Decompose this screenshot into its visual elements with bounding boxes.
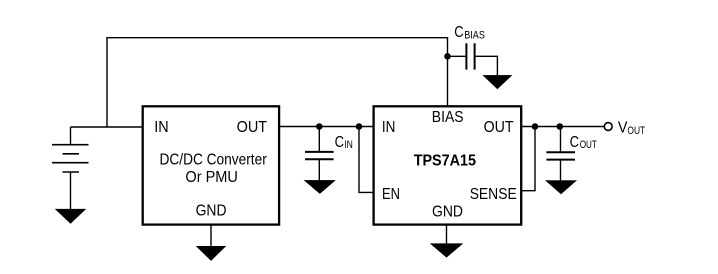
- capacitor COUT: [546, 152, 575, 159]
- wire EN drop from input rail into EN pin: [359, 127, 374, 193]
- junction dot SENSE / OUT node: [532, 123, 539, 130]
- svg-text:C: C: [454, 24, 463, 41]
- svg-text:IN: IN: [382, 119, 396, 136]
- terminal VOUT open circle: [604, 123, 612, 131]
- capacitor CIN: [305, 152, 334, 159]
- wire SENSE feedback to OUT node: [521, 127, 535, 191]
- wire OUT of TPS7A15 to VOUT terminal: [521, 126, 604, 128]
- wire TPS7A15 GND stem: [446, 225, 448, 245]
- box DC/DC Converter U1: [143, 106, 279, 224]
- svg-text:SENSE: SENSE: [470, 186, 517, 203]
- svg-text:IN: IN: [344, 139, 353, 151]
- wire converter GND stem: [210, 225, 212, 247]
- ground converter GND: [197, 246, 226, 260]
- svg-text:OUT: OUT: [484, 119, 514, 136]
- ground COUT: [546, 181, 576, 194]
- wire battery negative stem to ground: [70, 172, 72, 210]
- svg-text:DC/DC Converter: DC/DC Converter: [160, 151, 267, 168]
- svg-text:C: C: [335, 134, 344, 151]
- wire COUT top stem: [560, 127, 562, 152]
- wire battery to IN of DC/DC converter: [71, 126, 143, 128]
- ground battery: [56, 209, 86, 223]
- wire CBIAS right lead to ground drop: [476, 56, 498, 76]
- wire battery positive stem: [70, 127, 72, 144]
- wire top rail from battery net up and across to BIAS: [107, 38, 448, 127]
- battery B1 plates: [52, 145, 89, 172]
- svg-text:OUT: OUT: [237, 119, 268, 136]
- wire CIN top stem: [318, 127, 320, 152]
- wire OUT of converter to IN of TPS7A15: [279, 126, 374, 128]
- junction dot COUT / OUT node: [557, 123, 564, 130]
- wire CBIAS left lead: [448, 55, 466, 57]
- svg-text:GND: GND: [196, 202, 227, 219]
- svg-text:BIAS: BIAS: [432, 109, 464, 126]
- box TPS7A15 U2: [374, 106, 522, 224]
- svg-text:IN: IN: [154, 119, 168, 136]
- svg-text:OUT: OUT: [627, 125, 645, 137]
- svg-text:Or PMU: Or PMU: [185, 169, 238, 186]
- svg-text:EN: EN: [382, 186, 400, 203]
- svg-text:BIAS: BIAS: [464, 29, 485, 41]
- svg-text:OUT: OUT: [580, 139, 597, 151]
- junction dot EN tap: [356, 123, 363, 130]
- junction dot CIN / input rail: [316, 123, 323, 130]
- junction dot CBIAS tap: [444, 53, 451, 60]
- wire COUT bottom stem to ground: [560, 160, 562, 181]
- capacitor CBIAS: [466, 43, 474, 69]
- svg-text:GND: GND: [432, 204, 463, 221]
- svg-text:V: V: [618, 120, 628, 137]
- ground CBIAS: [483, 75, 511, 88]
- ground TPS7A15 GND: [431, 244, 463, 258]
- wire CIN bottom stem to ground: [318, 160, 320, 181]
- ground CIN: [305, 180, 336, 193]
- svg-text:C: C: [570, 134, 579, 151]
- svg-text:TPS7A15: TPS7A15: [414, 152, 477, 169]
